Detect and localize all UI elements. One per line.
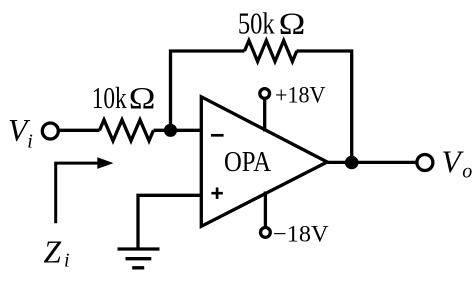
svg-text:−18V: −18V (273, 222, 329, 248)
node junction dot at inverting input (164, 124, 177, 137)
svg-text:50k: 50k (238, 7, 275, 41)
op-amp U1 triangle (201, 97, 327, 227)
wire feedback: resistor R2 right and down to output node (297, 51, 352, 162)
svg-text:10k: 10k (92, 81, 128, 115)
resistor R2 50k ohm (245, 41, 297, 62)
svg-text:+18V: +18V (275, 83, 326, 109)
wire resistor R1 to inverting input node (154, 129, 202, 132)
svg-text:OPA: OPA (224, 146, 271, 178)
node Vi input terminal (42, 123, 58, 139)
node +18V supply terminal (260, 89, 270, 99)
wire non-inverting input to ground (138, 195, 201, 249)
op-amp plus sign (non-inverting input) (211, 188, 222, 199)
wire input: Vi terminal to resistor R1 (58, 129, 99, 132)
arrow Zi input impedance indicator (56, 163, 99, 223)
resistor R1 10k ohm (100, 120, 154, 141)
svg-text:Ω: Ω (129, 81, 156, 115)
svg-text:Ω: Ω (279, 7, 306, 41)
wire output: op-amp apex to Vo terminal (327, 161, 416, 164)
node -18V supply terminal (261, 228, 271, 238)
op-amp minus sign (inverting input) (211, 134, 224, 137)
node junction dot at output (345, 156, 359, 170)
wire feedback: node up and across to resistor R2 (171, 51, 245, 130)
node Vo output terminal (417, 155, 433, 171)
wire negative supply from op-amp bottom edge (264, 192, 267, 227)
ground symbol (118, 249, 160, 268)
wire positive supply to op-amp top edge (263, 99, 266, 132)
